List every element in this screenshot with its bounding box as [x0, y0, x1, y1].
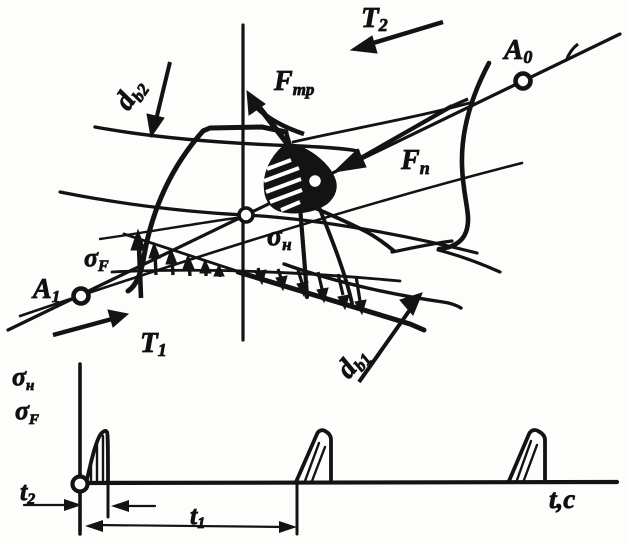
svg-text:t,c: t,c — [549, 484, 575, 514]
svg-text:σF: σF — [84, 243, 109, 275]
svg-text:Fтр: Fтр — [273, 66, 314, 99]
svg-text:T1: T1 — [140, 327, 167, 360]
svg-text:t2: t2 — [20, 477, 35, 508]
svg-text:σн: σн — [12, 362, 34, 394]
svg-text:Fn: Fn — [400, 145, 430, 178]
svg-text:σF: σF — [15, 396, 39, 428]
svg-text:db1: db1 — [330, 341, 375, 386]
svg-text:A0: A0 — [502, 34, 532, 67]
svg-text:db2: db2 — [109, 72, 154, 117]
svg-text:A1: A1 — [31, 274, 60, 306]
svg-text:σн: σн — [267, 221, 292, 254]
svg-text:t1: t1 — [190, 501, 205, 532]
svg-text:T2: T2 — [361, 2, 388, 35]
